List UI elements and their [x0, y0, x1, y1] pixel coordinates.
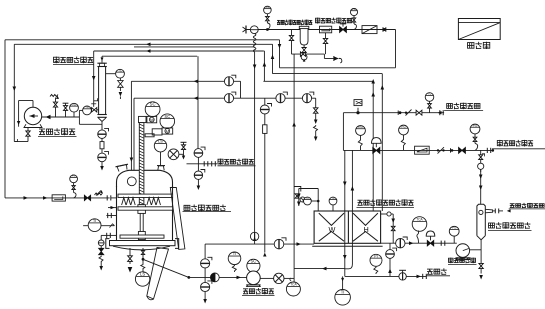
flow arrow L1 drop	[130, 158, 134, 163]
label oil outlet	[427, 269, 433, 274]
flow arrow return	[322, 267, 327, 271]
wire loop1 left x5	[4, 40, 6, 198]
safety valve SV1 on steam main	[250, 26, 258, 34]
wire header L1 left y81.3	[131, 80, 240, 82]
valve V7 feed line	[84, 195, 90, 200]
union fitting steam main	[382, 27, 384, 31]
relief fitting feed line	[95, 193, 103, 195]
ball valve H condenser drain lower	[98, 153, 107, 162]
svg-text:TI: TI	[341, 290, 345, 295]
impeller blade bar	[120, 235, 164, 238]
solenoid valve SV2	[356, 111, 359, 114]
label air pressurization port	[218, 159, 223, 165]
wire hot water line y243.2	[381, 242, 457, 244]
pressure reducing valve PRV1	[362, 26, 377, 34]
wire utility drop x197.2	[197, 56, 199, 148]
svg-text:TI: TI	[233, 251, 236, 256]
controller TCA2	[412, 217, 427, 232]
coupling box 2	[152, 129, 162, 135]
wire pair line y46.9	[134, 46, 255, 48]
label hot water pump	[449, 258, 454, 264]
label plate heat exchanger	[358, 200, 363, 205]
wire return y268.6	[294, 268, 345, 270]
svg-text:PG: PG	[72, 175, 76, 178]
feed pump P1	[247, 271, 261, 285]
svg-text:PG: PG	[473, 123, 478, 127]
svg-text:SC: SC	[251, 259, 257, 264]
hose coupling feed line	[106, 195, 108, 200]
ball valve N	[396, 239, 405, 248]
diaphragm control valve CV1 steam	[372, 138, 382, 144]
wire blowoff	[323, 54, 325, 58]
ball valve A on L1	[224, 77, 233, 86]
motor M2 box	[162, 128, 173, 134]
sight glass on drain	[100, 142, 104, 149]
svg-text:TC: TC	[428, 92, 432, 96]
label cooling water inlet	[447, 104, 453, 109]
svg-text:SC: SC	[150, 102, 156, 107]
vacuum pump VP1	[24, 107, 41, 124]
svg-text:LS: LS	[158, 140, 163, 144]
manhole sight glass	[127, 177, 136, 186]
flow arrow y244.1	[297, 242, 302, 246]
vent stub check valve under gauge TC1	[119, 78, 121, 80]
flow arrow drain x205.1	[203, 299, 207, 304]
vessel wall stub coupling y215.5	[106, 215, 116, 217]
level switch LS2	[135, 272, 149, 286]
svg-text:TI: TI	[93, 218, 97, 223]
wire transfer line y244.1	[205, 243, 314, 245]
wire pump suction y277.4	[189, 276, 247, 278]
discharge chute	[147, 248, 169, 300]
wall drain line	[101, 234, 116, 236]
control panel box	[458, 19, 500, 40]
valve V4 flow meter branch	[325, 33, 327, 54]
globe valve V5 steam main	[340, 27, 347, 33]
hot water pump P2	[456, 244, 470, 258]
valve pair cooling	[416, 110, 422, 115]
wire transfer y73.6	[273, 73, 383, 75]
gauge TC3 HX inlet	[303, 200, 313, 202]
treated water tank body	[477, 204, 485, 235]
steam flow meter FM3	[415, 146, 430, 154]
wire steam transfer y67.8	[280, 67, 396, 69]
speed controller SC2	[160, 114, 175, 129]
wire bypass loop x240.5	[240, 81, 242, 98]
valve on L2 drain	[313, 108, 318, 113]
ball valve C on L2	[276, 94, 285, 103]
svg-text:VG: VG	[72, 102, 76, 106]
pressure gauge PG2 with siphon	[350, 8, 357, 15]
ball valve F above air line	[194, 149, 203, 158]
flow arrow L1	[194, 80, 199, 84]
wire cooling corner leg x343.4	[342, 113, 344, 151]
ball valve K suction	[210, 273, 219, 282]
check valve into vacuum pump	[46, 115, 51, 119]
condenser funnel	[99, 117, 106, 121]
ball valve L on y244.1	[274, 239, 284, 249]
T-handle valve drain branch	[181, 141, 187, 143]
label treated water tank	[489, 223, 495, 228]
svg-text:H: H	[364, 225, 369, 234]
speed controller SC3 pump motor	[247, 259, 260, 272]
lower shaft	[139, 213, 141, 231]
wire L1 drop to vessel x131.4	[130, 81, 132, 170]
condenser bottom flange	[97, 114, 106, 116]
plate heat exchanger body	[314, 211, 381, 243]
wire steam main drop x395.5	[386, 29, 396, 31]
svg-text:TCA: TCA	[290, 283, 297, 287]
hose coupling steam inlet	[486, 148, 488, 153]
wire pipe B through HX x352	[351, 150, 353, 264]
branch fitting on x294.1	[294, 187, 301, 192]
svg-text:W: W	[329, 225, 336, 234]
flow arrow drop x93.7	[92, 76, 96, 81]
pressure gauge PG8	[399, 125, 409, 135]
svg-text:PG: PG	[358, 125, 363, 129]
flow arrow oil outlet	[417, 275, 422, 279]
flow arrow loop2	[146, 43, 151, 47]
wire pump discharge	[260, 277, 273, 279]
wire condenser drain x102	[101, 122, 103, 130]
wire header L2 y98.2	[134, 97, 316, 99]
ball valve F2 below air line	[194, 171, 202, 179]
svg-text:PG: PG	[452, 226, 457, 230]
ball valve on x264.8	[260, 105, 269, 114]
wire steam main y29.5	[246, 29, 396, 31]
label condenser	[54, 57, 60, 64]
gauge TC4 HX inlet 2	[329, 197, 337, 205]
check valve blowoff	[334, 56, 339, 60]
wire pump to tank	[470, 249, 482, 251]
check valve circle on coil line	[250, 232, 258, 240]
wire header L1 right y81.3	[263, 80, 373, 82]
flow arrow riser x382.3	[381, 85, 385, 90]
tank cone	[477, 236, 485, 240]
flow arrow vapor line	[146, 49, 151, 53]
T-handle ball valve oil outlet	[399, 273, 406, 280]
svg-text:M: M	[150, 117, 154, 122]
wire coil line lower vertical	[254, 98, 256, 232]
wire L2 drain drop x315.7	[315, 98, 317, 107]
label vacuum pump	[39, 129, 45, 135]
ball valve G condenser drain	[98, 130, 107, 139]
wire riser x279.5 to loop1	[279, 40, 281, 68]
shaft coupling in vessel	[138, 205, 146, 214]
steam trap branch to tank x480.7	[480, 150, 482, 204]
flow arrow hot water	[409, 241, 414, 245]
ball valve I	[201, 259, 210, 268]
wire oil outlet y276.4	[344, 269, 346, 277]
diaphragm control valve CV2	[426, 231, 435, 236]
gear bar	[145, 134, 154, 137]
vessel LS nozzle	[158, 166, 164, 171]
wire air utility drop x264.4	[263, 50, 266, 52]
gauge TC1 condenser top	[106, 73, 116, 75]
manual valve slash	[406, 110, 412, 116]
wire loop1 top y39.8	[5, 39, 280, 41]
HX H-side top outlet	[381, 213, 387, 215]
wire condenser drain return y124.3	[79, 123, 102, 125]
flow arrow L2	[194, 96, 199, 100]
svg-text:PG: PG	[352, 9, 355, 11]
speed controller SC1	[145, 102, 160, 117]
wire sample diagonal	[143, 259, 189, 277]
flow arrow down on coil line	[253, 65, 257, 70]
wire pump drain return y141.5	[14, 141, 28, 143]
distributor bar 2	[118, 207, 173, 210]
svg-text:PG: PG	[401, 124, 406, 128]
wire loop2 left x14.3	[13, 44, 15, 141]
valve V2 under steam filter	[302, 48, 306, 53]
wire discharge to TCA	[284, 277, 294, 279]
label steam flow meter	[316, 18, 320, 24]
wire long utility drop x294.1	[293, 54, 295, 269]
wire air line y163.8	[187, 163, 218, 165]
vessel support lug right	[175, 239, 179, 249]
label multifunction extractor	[184, 205, 190, 210]
gauge TI1 vessel wall	[83, 225, 114, 227]
label feed pump	[243, 289, 248, 294]
valve V3 on filter drain header	[300, 52, 305, 56]
HX top TC loop bracket	[299, 188, 318, 190]
valve V6 condenser suction	[97, 109, 99, 111]
wire condenser top line y56.2	[102, 55, 197, 57]
U bend under HX	[345, 264, 353, 269]
union fitting cooling	[397, 111, 399, 115]
hose couplings air line	[203, 161, 205, 166]
wire pump drop x205.1	[204, 244, 206, 299]
svg-text:TCA: TCA	[416, 218, 423, 222]
label steam filter	[277, 20, 280, 24]
svg-text:LS: LS	[140, 272, 145, 277]
label steam inlet	[497, 140, 502, 147]
vessel wall stub arrow y207.6	[108, 207, 117, 209]
gauge PI1	[370, 254, 382, 266]
ball valve B on L2	[224, 94, 233, 103]
hose coupling oil outlet	[422, 274, 424, 279]
hose coupling hot water	[440, 241, 442, 246]
vacuum pump drain valve	[27, 128, 29, 131]
vessel bottom drain valve x130	[129, 248, 131, 256]
wire feed line y197.9	[5, 197, 110, 199]
flow arrow x264.8 bottom	[263, 253, 266, 257]
wire filter drain header y54.1	[292, 53, 325, 55]
gauge TI2 suction	[228, 252, 241, 265]
gauge TC5 cooling inlet	[425, 93, 434, 102]
wire condenser left drop x93.7	[93, 51, 95, 107]
vessel support lug left	[106, 239, 110, 249]
label control panel	[468, 43, 474, 49]
pressure gauge PG6	[449, 226, 459, 236]
strainer slash steam	[438, 147, 445, 153]
junction dot steam main	[266, 28, 269, 31]
pressure gauge PG5 feed line	[70, 175, 78, 183]
pressure X-circle discharge	[274, 273, 284, 283]
check circle under filter	[301, 54, 307, 60]
pressure gauge PG7	[470, 124, 480, 134]
wire vacuum pump suction y117	[42, 116, 80, 118]
vacuum pump recirculation loop	[32, 101, 34, 108]
svg-text:TC: TC	[306, 197, 309, 200]
condenser shell	[99, 67, 106, 115]
gauge TI3 oil line	[343, 276, 345, 289]
globe valve steam inlet	[459, 148, 466, 154]
inline strainer on x264.8	[263, 125, 267, 134]
impeller hub	[138, 232, 145, 240]
pipe cap cooling inlet	[439, 110, 441, 115]
wire cooling water y112.7	[343, 112, 444, 114]
steam trap vertical x390	[389, 243, 391, 276]
valve V1 steam filter inlet branch	[291, 30, 293, 55]
svg-text:SC: SC	[164, 114, 170, 119]
steam flow meter FM1	[320, 26, 332, 33]
wire vacuum junction x79.4	[78, 110, 80, 124]
wire L2 drop to vessel x134	[133, 98, 135, 170]
flow arrow loop2 left	[13, 87, 17, 92]
motor M1 box	[147, 116, 157, 122]
svg-text:PG: PG	[266, 7, 270, 9]
vessel dome	[117, 170, 173, 187]
flow arrow on riser x279.5	[278, 44, 282, 49]
wire loop2 right riser x272.5	[272, 44, 274, 73]
vessel bottom dish	[113, 246, 170, 250]
pipe end cap steam main	[245, 26, 247, 34]
wire condenser vapor line y51	[94, 50, 264, 52]
spray nozzles	[122, 198, 126, 205]
vessel shell walls	[116, 186, 118, 241]
ball valve D on L2	[302, 94, 311, 103]
pressure gauge PG1 with siphon	[264, 6, 272, 14]
svg-text:TC: TC	[331, 197, 334, 200]
vessel dome nozzle left	[117, 165, 127, 172]
vent branch valve	[65, 111, 67, 117]
union steam inlet	[450, 148, 452, 152]
svg-text:M: M	[165, 129, 169, 134]
steam filter F1	[300, 29, 308, 45]
svg-text:TC: TC	[85, 105, 89, 109]
wire loop2 top y44.3	[14, 43, 272, 45]
flow meter FM2 feed line	[52, 195, 65, 201]
agitator motor coupling box	[139, 116, 147, 122]
wire pipe A through HX x345.2	[344, 150, 346, 268]
support leg right	[170, 188, 185, 250]
pressure gauge PG9	[356, 126, 366, 136]
flow arrow riser x272.5	[271, 55, 275, 60]
pressure indicator X-circle vessel	[168, 149, 179, 160]
vessel bottom flange	[110, 241, 176, 246]
wire HX riser x382.3	[381, 74, 383, 211]
HX W section pattern	[319, 213, 344, 225]
HX divider	[347, 211, 349, 243]
svg-text:PI: PI	[374, 254, 378, 258]
tank inlet nozzle right	[479, 210, 483, 214]
wire steam inlet y150.4	[343, 149, 492, 151]
wire coil riser from steam main	[253, 34, 256, 52]
flow arrow feed	[24, 196, 29, 200]
wire condenser top stem	[101, 56, 103, 62]
gauge VG vacuum gauge	[73, 112, 75, 117]
level switch LS1	[160, 152, 162, 166]
wire HX riser x373.2 to L1	[372, 81, 374, 211]
ball valve J	[201, 282, 210, 291]
relief branch with spring	[55, 107, 57, 117]
label extraction water inlet	[510, 204, 515, 208]
wire drop x264.8 below L2	[264, 98, 266, 105]
elbow fitting on drop x93.7	[94, 98, 98, 101]
tank drain	[480, 240, 482, 263]
drain valve circle	[98, 240, 104, 246]
HX base plate	[312, 245, 382, 247]
HX H section pattern	[353, 213, 378, 225]
spray header bar	[118, 194, 173, 197]
controller TCA1	[293, 269, 295, 282]
wire gauge stub to drain branch	[179, 153, 184, 155]
flow arrow suction	[237, 276, 242, 280]
agitator shaft hatched	[139, 123, 144, 205]
vessel bottom LS leg x143	[142, 248, 144, 251]
svg-text:TC: TC	[118, 68, 122, 72]
gauge TC2 vacuum line	[83, 106, 92, 115]
drain check valve	[98, 248, 104, 255]
